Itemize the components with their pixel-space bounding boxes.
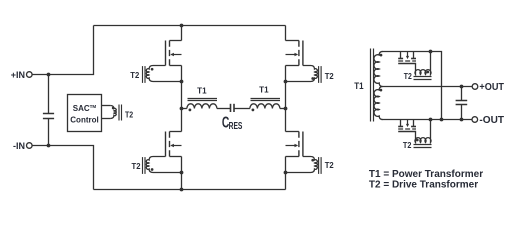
wire Cin top lead xyxy=(48,75,50,114)
SAC control block U1 xyxy=(68,95,102,132)
core T1 (output) xyxy=(371,49,374,122)
svg-text:-IN: -IN xyxy=(13,141,25,151)
svg-text:T2: T2 xyxy=(125,109,133,119)
svg-text:T2: T2 xyxy=(403,140,412,150)
transformer T2 (Q4 gate drive) xyxy=(286,157,322,174)
wire Q2 source to bottom rail xyxy=(181,157,183,190)
junction right riser/-OUT xyxy=(440,118,444,122)
label T1 (output) xyxy=(354,81,364,92)
node +IN terminal xyxy=(11,70,32,80)
label T1 (left) xyxy=(197,87,207,96)
label T2 (Q3) xyxy=(325,71,334,81)
transistor Q6 (bottom sync rectifier) xyxy=(398,120,416,132)
core T1a xyxy=(188,99,218,101)
svg-text:Control: Control xyxy=(70,116,98,125)
junction Q4 source/T2 xyxy=(284,171,288,175)
wire secondary bottom lead xyxy=(382,119,473,121)
junction Cout/-OUT xyxy=(460,118,464,122)
label T2 (Q4) xyxy=(325,160,334,170)
junction +IN/Cin xyxy=(47,73,51,77)
phase dot T1 sec top xyxy=(380,54,383,57)
phase dot T1b xyxy=(252,109,255,112)
wire T1b to node B xyxy=(280,108,286,110)
transistor Q5 (top sync rectifier) xyxy=(398,52,416,64)
node -OUT terminal xyxy=(472,115,504,126)
label T2 (Q1) xyxy=(130,70,139,80)
svg-text:+OUT: +OUT xyxy=(479,82,504,93)
wire right bridge top riser xyxy=(285,26,287,41)
junction Q5 T2/top lead xyxy=(429,50,433,54)
wire Q3 source to node B xyxy=(285,66,287,132)
transformer T1 secondary winding xyxy=(374,52,383,120)
inductor T1a (left primary winding) xyxy=(187,104,217,109)
svg-text:T1: T1 xyxy=(354,81,364,92)
node +OUT terminal xyxy=(472,82,504,93)
label CRES xyxy=(222,115,243,132)
wire node A to T1a xyxy=(182,108,187,110)
label T1 (right) xyxy=(259,86,269,95)
wire -IN to bottom rail riser xyxy=(32,146,93,190)
transformer T2 (SAC drive primary) xyxy=(110,105,121,121)
phase dot T1 sec mid xyxy=(380,89,383,92)
wire bottom rail xyxy=(94,189,286,191)
junction Q1 source/T2 xyxy=(180,80,184,84)
wire Cout top lead xyxy=(461,87,463,101)
svg-text:T1: T1 xyxy=(259,86,269,95)
node A (left resonant node) xyxy=(180,107,184,111)
wire Cout bottom lead xyxy=(461,105,463,120)
label T2 (Q2) xyxy=(132,161,141,171)
wire center tap to +OUT xyxy=(382,86,473,88)
node B (right resonant node) xyxy=(284,107,288,111)
label T2 (SAC) xyxy=(125,109,133,119)
svg-text:T2: T2 xyxy=(130,70,139,80)
wire +IN to top rail riser xyxy=(32,26,93,75)
junction Q6 T2/-OUT xyxy=(429,118,433,122)
transistor Q3 (top-right MOSFET) xyxy=(286,41,303,66)
transformer T2 (Q5 gate drive) xyxy=(414,52,432,80)
junction top rail/Q1 xyxy=(180,24,184,28)
wire Cres to T1b xyxy=(234,108,250,110)
label T2 (Q6 drive) xyxy=(403,140,412,150)
transistor Q2 (bottom-left MOSFET) xyxy=(166,132,182,157)
svg-text:T2: T2 xyxy=(404,71,412,81)
label legend line 1 xyxy=(369,169,483,180)
transistor Q1 (top-left MOSFET) xyxy=(166,41,182,66)
node -IN terminal xyxy=(13,141,32,151)
capacitor CRES xyxy=(231,104,235,112)
junction Q3 source/T2 xyxy=(284,80,288,84)
svg-text:T1 = Power Transformer: T1 = Power Transformer xyxy=(369,169,483,180)
phase dot T1a xyxy=(189,109,192,112)
junction Cout/+OUT xyxy=(460,85,464,89)
svg-text:RES: RES xyxy=(229,121,243,132)
wire T1a to Cres xyxy=(217,108,230,110)
capacitor Cin (input) xyxy=(43,114,54,119)
wire SAC drive leads xyxy=(102,106,111,119)
capacitor Cout (output) xyxy=(456,101,468,105)
transformer T2 (Q2 gate drive) xyxy=(143,157,182,174)
svg-text:T2: T2 xyxy=(132,161,141,171)
svg-text:T1: T1 xyxy=(197,87,207,96)
junction Q2 source/T2 xyxy=(180,171,184,175)
core T1b xyxy=(251,99,281,101)
label legend line 2 xyxy=(369,179,478,190)
junction bottom rail/Q2 xyxy=(180,188,184,192)
label T2 (Q5 drive) xyxy=(404,71,412,81)
transformer T2 (Q3 gate drive) xyxy=(286,66,322,83)
wire secondary top lead xyxy=(382,52,442,120)
wire top rail xyxy=(94,25,286,27)
junction -IN/Cin xyxy=(47,144,51,148)
wire bottom-right riser xyxy=(285,157,287,190)
svg-text:+IN: +IN xyxy=(11,70,25,80)
transformer T2 (Q1 gate drive) xyxy=(143,66,182,83)
svg-text:-OUT: -OUT xyxy=(479,115,504,126)
transistor Q4 (bottom-right MOSFET) xyxy=(286,132,303,157)
transformer T2 (Q6 gate drive) xyxy=(414,120,432,148)
wire Cin bottom lead xyxy=(48,119,50,146)
svg-text:T2 = Drive Transformer: T2 = Drive Transformer xyxy=(369,179,478,190)
inductor T1b (right primary winding) xyxy=(250,104,280,109)
wire Q1 drain riser xyxy=(181,26,183,41)
svg-text:T2: T2 xyxy=(325,160,334,170)
svg-text:T2: T2 xyxy=(325,71,334,81)
wire Q1 source to node A xyxy=(181,66,183,132)
